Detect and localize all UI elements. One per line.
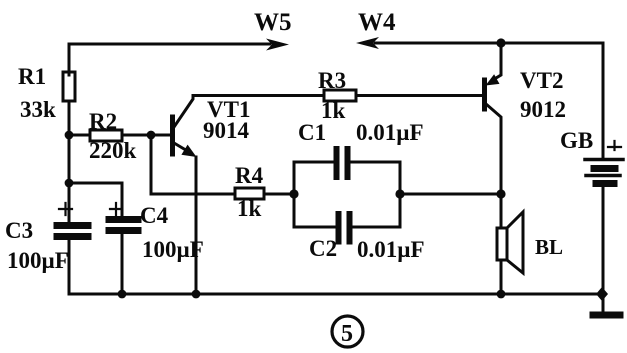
- svg-text:C1: C1: [298, 120, 326, 145]
- svg-text:220k: 220k: [89, 138, 137, 163]
- svg-text:C3: C3: [5, 218, 33, 243]
- wire right node to VT2 collector line: [400, 193, 501, 196]
- wire top rail from R1 top corner to W5: [69, 44, 269, 75]
- capacitor C1: [298, 120, 424, 177]
- svg-text:100µF: 100µF: [7, 248, 69, 273]
- battery negative terminal bar: [593, 294, 620, 315]
- node G: VT2 collector junction: [496, 189, 505, 198]
- svg-text:GB: GB: [560, 128, 593, 153]
- svg-text:1k: 1k: [237, 196, 262, 221]
- svg-text:C2: C2: [309, 236, 337, 261]
- battery GB: [560, 128, 623, 294]
- node A: R1/R2/C junction: [65, 131, 74, 140]
- svg-text:5: 5: [341, 321, 353, 347]
- node H: C4 ground junction: [118, 290, 127, 299]
- svg-text:33k: 33k: [20, 97, 56, 122]
- node E: C1/C2 right node: [395, 189, 404, 198]
- wire R3 to VT2 base: [356, 94, 483, 97]
- resistor R4: [235, 163, 294, 221]
- wire battery top: corner down right side: [602, 43, 605, 157]
- resistor R3: [318, 68, 356, 123]
- terminal W4 arrow: [356, 9, 603, 49]
- wire branch to C4: [69, 183, 122, 216]
- svg-text:0.01µF: 0.01µF: [356, 120, 424, 145]
- figure number 5: [332, 316, 363, 347]
- wire VT1 base feedback down: [151, 135, 235, 194]
- svg-text:R4: R4: [235, 163, 264, 188]
- node D: C1/C2 left node: [289, 189, 298, 198]
- wire C1 top branch right: [350, 162, 400, 194]
- resistor R1: [18, 64, 75, 135]
- capacitor C4: [109, 203, 204, 294]
- transistor VT1 (9014 NPN): [173, 96, 251, 158]
- wire C1 top branch left: [294, 162, 334, 194]
- wire VT1 emitter down to ground rail: [195, 157, 198, 294]
- svg-text:9014: 9014: [203, 118, 250, 143]
- capacitor C2: [309, 214, 425, 262]
- node C: C3/C4 branch junction: [65, 179, 74, 188]
- svg-text:R1: R1: [18, 64, 46, 89]
- wire ground rail: [69, 293, 603, 296]
- speaker BL: [497, 194, 563, 294]
- svg-text:R2: R2: [89, 109, 117, 134]
- node K: battery ground junction: [596, 287, 608, 301]
- svg-text:VT2: VT2: [520, 68, 563, 93]
- node F: VT2 emitter to W4 rail: [496, 38, 505, 47]
- svg-text:R3: R3: [318, 68, 346, 93]
- node J: speaker ground junction: [497, 290, 506, 299]
- svg-text:0.01µF: 0.01µF: [357, 237, 425, 262]
- transistor VT2 (9012 PNP): [485, 43, 567, 194]
- wire node A down to C3/C4 branch: [68, 135, 71, 183]
- resistor R2: [69, 109, 171, 163]
- node B: VT1 base junction: [147, 131, 156, 140]
- wire C2 bottom branch right: [352, 194, 400, 227]
- node I: VT1 emitter ground junction: [192, 290, 201, 299]
- wire C2 bottom branch left: [294, 194, 335, 227]
- capacitor C3: [5, 183, 88, 294]
- svg-text:C4: C4: [140, 203, 169, 228]
- svg-text:BL: BL: [535, 235, 563, 259]
- svg-text:W5: W5: [254, 9, 292, 36]
- terminal W5 arrow: [254, 9, 292, 51]
- svg-text:W4: W4: [358, 9, 396, 36]
- svg-text:9012: 9012: [520, 97, 566, 122]
- wire VT1 collector to R3: [193, 94, 324, 97]
